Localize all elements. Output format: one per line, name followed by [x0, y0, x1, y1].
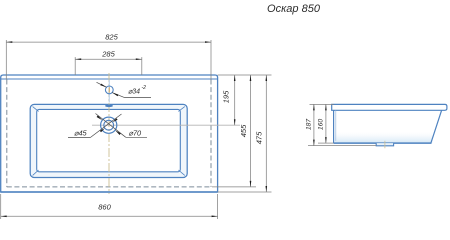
svg-text:285: 285 [101, 49, 115, 58]
svg-text:860: 860 [98, 202, 111, 211]
svg-text:⌀45: ⌀45 [74, 128, 88, 137]
svg-text:195: 195 [221, 90, 230, 103]
svg-text:455: 455 [239, 124, 248, 137]
svg-text:⌀34: ⌀34 [128, 89, 140, 96]
svg-text:475: 475 [255, 131, 264, 144]
svg-text:⌀70: ⌀70 [129, 128, 143, 137]
svg-text:187: 187 [306, 119, 313, 131]
svg-text:160: 160 [318, 119, 325, 131]
svg-text:-2: -2 [142, 85, 147, 91]
svg-text:825: 825 [105, 32, 118, 41]
svg-text:Оскар 850: Оскар 850 [267, 3, 321, 15]
